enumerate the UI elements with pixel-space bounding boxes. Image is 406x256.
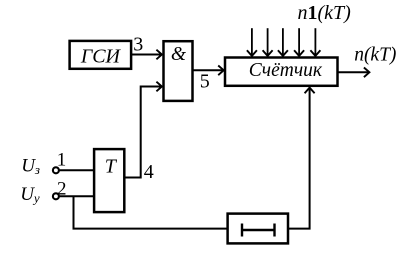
- output wire n(kT): [338, 68, 369, 78]
- terminal 2 (input Uу): [53, 193, 59, 199]
- svg-text:&: &: [171, 44, 187, 65]
- svg-text:Счётчик: Счётчик: [249, 60, 323, 81]
- counter U3 Счётчик: [225, 58, 338, 86]
- svg-text:T: T: [105, 156, 118, 178]
- svg-text:3: 3: [133, 34, 143, 56]
- svg-text:n(kT): n(kT): [354, 45, 396, 66]
- junction on wire 2: [74, 196, 227, 228]
- wire 4 (trigger output up to AND gate): [124, 82, 162, 178]
- wire 1 (Uз to trigger): [59, 169, 94, 171]
- svg-text:1: 1: [57, 150, 67, 171]
- block U1 ГСИ (pulse generator): [70, 41, 132, 69]
- feedback wire down from junction: [74, 196, 227, 228]
- terminal 1 (input Uз): [53, 167, 59, 173]
- wire 5 (AND gate to counter): [194, 66, 224, 76]
- svg-text:5: 5: [200, 71, 210, 93]
- input arrow bus n1(kT) line 3: [278, 28, 288, 56]
- svg-text:n1(kT): n1(kT): [298, 2, 352, 24]
- input arrow bus n1(kT) line 2: [263, 28, 273, 56]
- input arrow bus n1(kT) line 4: [294, 28, 304, 56]
- svg-text:4: 4: [144, 161, 154, 183]
- AND gate U2 &: [164, 41, 193, 101]
- input arrow bus n1(kT) line 5: [310, 28, 320, 56]
- wire 3 (ГСИ to AND gate): [131, 50, 162, 60]
- wire 2 (Uу to trigger): [59, 195, 94, 197]
- feedback wire (delay to counter): [289, 88, 315, 229]
- svg-text:ГСИ: ГСИ: [80, 45, 122, 67]
- delay element U5: [228, 214, 288, 244]
- trigger U4 T: [94, 149, 124, 212]
- input arrow bus n1(kT) line 1: [247, 28, 257, 56]
